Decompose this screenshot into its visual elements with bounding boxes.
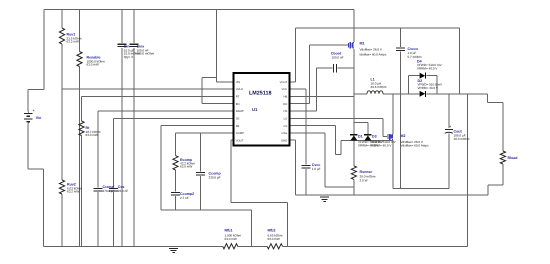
wire CS wire — [290, 125, 336, 127]
resistor Rload — [500, 151, 505, 164]
node RT wire — [82, 95, 234, 97]
svg-text:GND: GND — [281, 139, 287, 142]
svg-text:D3: D3 — [372, 135, 377, 139]
source Vin — [24, 113, 33, 115]
svg-text:Rload: Rload — [508, 156, 518, 160]
svg-text:63.0 mW: 63.0 mW — [225, 237, 237, 241]
svg-text:RAMP: RAMP — [236, 110, 244, 113]
wire battery bottom lead — [27, 123, 29, 169]
svg-text:63.2 mW: 63.2 mW — [67, 39, 79, 43]
svg-text:22.0 nF: 22.0 nF — [118, 189, 128, 193]
wire Renable column — [79, 10, 81, 52]
resistor Renable — [77, 52, 82, 67]
wire Rload top jog — [487, 94, 489, 103]
svg-text:LO: LO — [284, 118, 288, 121]
wire FB lower net — [161, 209, 252, 211]
wire Cin column — [121, 10, 123, 44]
svg-text:+: + — [33, 109, 35, 113]
wire Rsense top lead — [353, 140, 355, 166]
svg-text:680.0 mOhm: 680.0 mOhm — [137, 51, 155, 55]
svg-text:IdsMax= 60.0 Amps: IdsMax= 60.0 Amps — [360, 52, 387, 56]
diode D2 — [420, 91, 426, 97]
wire Rload bottom jog — [502, 164, 504, 185]
wire Vout sense drop — [467, 94, 469, 247]
wire HO wire — [290, 103, 310, 105]
wire top input rail — [44, 9, 354, 11]
svg-text:COMP: COMP — [236, 132, 244, 135]
ground PGND — [320, 196, 329, 198]
resistor Ruv2 — [59, 180, 64, 194]
svg-text:29.6 mOhm: 29.6 mOhm — [371, 85, 387, 89]
node anode line — [341, 139, 393, 141]
svg-text:VIN: VIN — [236, 81, 241, 84]
wire Cvccx column — [400, 28, 402, 47]
resistor Rfb1 — [223, 244, 238, 249]
svg-text:2.0 W: 2.0 W — [360, 179, 368, 183]
wire Cinx column — [133, 10, 135, 44]
svg-text:HS: HS — [283, 110, 287, 113]
wire M2 source column — [392, 140, 394, 188]
ground AGND — [169, 247, 178, 249]
op-amp U1 LM25118 — [234, 73, 290, 146]
svg-text:CS: CS — [283, 125, 287, 128]
capacitor Cinx — [130, 43, 139, 45]
wire GND pin column — [290, 139, 296, 141]
wire LO wire — [290, 117, 384, 119]
svg-text:EN: EN — [236, 103, 240, 106]
wire bottom VOUT rail — [283, 245, 468, 247]
capacitor Ccomp2 — [171, 191, 180, 193]
wire battery top lead — [28, 88, 44, 90]
svg-text:VOUT: VOUT — [236, 139, 244, 142]
svg-text:63.0 mW: 63.0 mW — [86, 133, 98, 137]
svg-text:M1: M1 — [360, 41, 365, 45]
svg-text:HO: HO — [283, 103, 287, 106]
resistor Ruv1 — [59, 28, 64, 44]
svg-text:16.0 mOhm: 16.0 mOhm — [454, 137, 470, 141]
svg-text:CSG: CSG — [281, 132, 287, 135]
wire Cramp column lower — [97, 192, 99, 246]
wire D4 branch — [407, 76, 409, 94]
wire Ccomp column — [200, 133, 202, 172]
wire Cout bottom lead — [448, 133, 450, 188]
svg-text:Rfb1: Rfb1 — [225, 229, 233, 233]
resistor Rfb2 — [267, 244, 282, 249]
svg-text:63.0 mW: 63.0 mW — [180, 165, 192, 169]
wire SW1 column — [353, 49, 355, 135]
wire VCCX rail — [296, 27, 460, 29]
svg-text:330.0 pF: 330.0 pF — [209, 175, 221, 179]
wire SW1 to L1 — [354, 93, 367, 95]
capacitor Cvcc — [302, 165, 311, 167]
capacitor Css — [109, 188, 118, 190]
node FB wire — [161, 125, 234, 127]
svg-text:Rsense: Rsense — [360, 170, 373, 174]
node SW2 line — [383, 93, 420, 95]
svg-text:LM25118: LM25118 — [249, 91, 271, 97]
svg-text:VCCX: VCCX — [280, 81, 288, 84]
capacitor Cout — [445, 128, 453, 130]
wire Rsense bottom lead — [353, 179, 355, 194]
svg-text:VdsMax= 60.0 Amps: VdsMax= 60.0 Amps — [401, 144, 430, 148]
node SS wire — [114, 117, 234, 119]
wire Cboot left lead — [317, 67, 333, 69]
wire Rcomp-Ccomp2 column — [175, 170, 177, 191]
svg-text:Qty= 3: Qty= 3 — [124, 55, 133, 59]
wire VIN pin column — [216, 10, 218, 82]
wire power gnd segment — [393, 187, 449, 189]
wire Cout top lead — [448, 94, 450, 128]
node VOUT power rail — [427, 93, 488, 95]
svg-text:VRRM= 40.0 V: VRRM= 40.0 V — [417, 66, 438, 70]
resistor Rt — [79, 121, 84, 136]
wire VCCX drop — [459, 28, 461, 94]
capacitor Cboot — [333, 64, 335, 72]
inductor L1 — [367, 91, 383, 94]
wire M2 drain column — [392, 94, 394, 134]
wire CSG wire — [290, 132, 326, 134]
diode D3 — [364, 134, 371, 136]
svg-text:RT: RT — [236, 96, 240, 99]
wire VCC stub — [290, 88, 307, 90]
capacitor Cvccx — [396, 47, 405, 49]
svg-text:+: + — [449, 125, 451, 129]
svg-text:63.2 mW: 63.2 mW — [67, 189, 79, 193]
wire Cvcc column lower — [305, 169, 307, 195]
node UVLO wire — [62, 88, 234, 90]
svg-text:VRRM= 40.0 V: VRRM= 40.0 V — [371, 144, 392, 148]
node COMP wire — [176, 132, 234, 134]
svg-text:UVLO: UVLO — [236, 88, 244, 91]
capacitor Cin — [118, 43, 127, 45]
svg-text:Rfb2: Rfb2 — [268, 229, 276, 233]
capacitor Cramp — [94, 188, 103, 190]
wire Css column lower — [113, 192, 115, 246]
svg-text:VCC: VCC — [281, 88, 287, 91]
svg-text:100.0 nF: 100.0 nF — [331, 56, 343, 60]
wire PGND rail — [296, 194, 488, 196]
wire HB wire — [290, 95, 354, 97]
diode D4 — [420, 73, 426, 79]
resistor Rsense — [351, 166, 356, 180]
node VOUT sense wire — [231, 139, 234, 141]
svg-text:1.0 µF: 1.0 µF — [312, 167, 321, 171]
svg-text:VdsMax= 26.0 V: VdsMax= 26.0 V — [360, 47, 383, 51]
transistor M2 — [387, 134, 389, 139]
wire bottom mid rail — [238, 245, 267, 247]
wire bottom AGND rail — [44, 245, 223, 247]
wire Ruv column — [61, 10, 63, 29]
wire HS wire — [290, 110, 317, 112]
diode D1 — [350, 134, 357, 136]
svg-text:2.7 nF: 2.7 nF — [180, 196, 189, 200]
svg-text:SS: SS — [236, 118, 240, 121]
svg-text:M2: M2 — [401, 134, 406, 138]
node EN wire — [202, 77, 217, 79]
wire Rt column lower — [81, 136, 83, 247]
svg-text:VRRM= 40.0 V: VRRM= 40.0 V — [418, 86, 439, 90]
wire M1 drain column — [353, 10, 355, 42]
wire Cboot right lead — [338, 67, 354, 69]
svg-text:D1: D1 — [358, 135, 363, 139]
svg-text:Vin: Vin — [36, 116, 42, 120]
svg-text:HB: HB — [283, 96, 287, 99]
svg-text:63.0 mW: 63.0 mW — [87, 62, 99, 66]
svg-text:U1: U1 — [252, 107, 258, 112]
node RAMP wire — [98, 110, 234, 112]
capacitor Ccomp — [196, 172, 205, 174]
svg-text:FB: FB — [236, 125, 240, 128]
transistor M1 — [348, 43, 350, 48]
wire D3 jog — [354, 122, 368, 124]
resistor Rcomp — [173, 156, 178, 170]
svg-text:63.0 mW: 63.0 mW — [268, 237, 280, 241]
